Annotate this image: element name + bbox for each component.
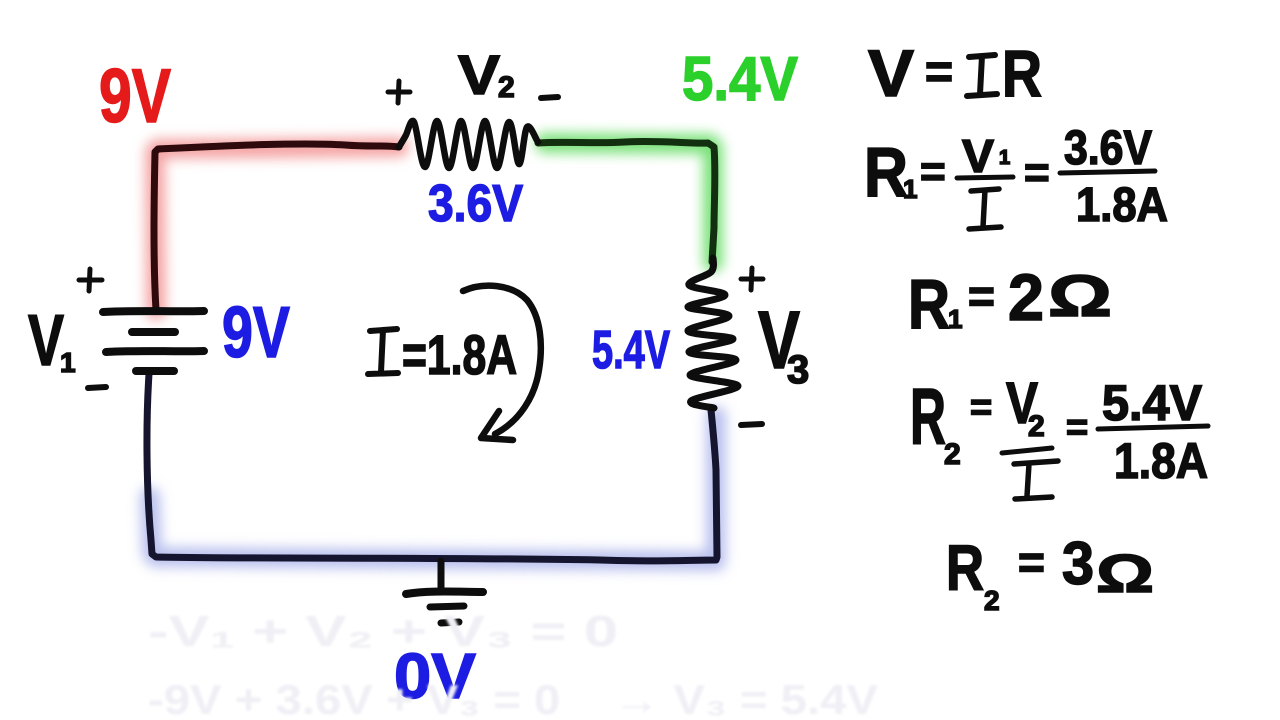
svg-text:3: 3	[787, 348, 809, 392]
svg-text:1: 1	[60, 347, 76, 378]
svg-text:2: 2	[498, 71, 515, 104]
svg-text:=: =	[920, 147, 946, 196]
svg-text:5.4V: 5.4V	[682, 45, 798, 114]
svg-text:3.6V: 3.6V	[1064, 122, 1152, 175]
svg-text:1.8A: 1.8A	[1114, 433, 1208, 489]
svg-text:5.4V: 5.4V	[1102, 375, 1203, 431]
svg-text:R: R	[864, 133, 908, 211]
svg-text:V: V	[868, 36, 914, 110]
svg-text:Ω: Ω	[1096, 544, 1154, 604]
svg-text:2: 2	[944, 438, 961, 471]
svg-text:R: R	[946, 532, 984, 604]
svg-text:R: R	[1002, 36, 1042, 110]
svg-text:2: 2	[984, 585, 1000, 616]
svg-text:-9V + 3.6V + V₃ = 0 → V₃ =: -9V + 3.6V + V₃ = 0 → V₃ = 5.4V	[148, 676, 878, 720]
svg-text:=: =	[925, 46, 953, 99]
svg-text:5.4V: 5.4V	[592, 320, 670, 380]
svg-text:R: R	[908, 265, 950, 343]
svg-text:=: =	[1024, 148, 1050, 197]
svg-text:3: 3	[1062, 530, 1094, 597]
svg-text:1: 1	[903, 174, 917, 204]
svg-text:1: 1	[999, 147, 1010, 169]
svg-text:1.8A: 1.8A	[1076, 179, 1168, 232]
svg-text:3.6V: 3.6V	[428, 175, 523, 233]
svg-text:=: =	[1018, 536, 1045, 588]
svg-text:V: V	[28, 301, 64, 381]
svg-text:=: =	[970, 387, 992, 429]
svg-text:1: 1	[948, 304, 962, 334]
svg-text:=: =	[968, 270, 995, 322]
svg-text:9V: 9V	[222, 293, 290, 373]
svg-text:-V₁ + V₂ + V₃ = 0: -V₁ + V₂ + V₃ = 0	[148, 607, 618, 656]
svg-text:=1.8A: =1.8A	[402, 323, 517, 386]
svg-text:V: V	[458, 43, 500, 106]
svg-text:2: 2	[1028, 410, 1045, 443]
svg-text:Ω: Ω	[1048, 264, 1112, 329]
svg-text:9V: 9V	[99, 54, 171, 139]
svg-text:R: R	[910, 372, 946, 461]
svg-text:=: =	[1066, 407, 1088, 449]
svg-text:2: 2	[1008, 260, 1044, 334]
svg-text:V: V	[962, 130, 994, 182]
